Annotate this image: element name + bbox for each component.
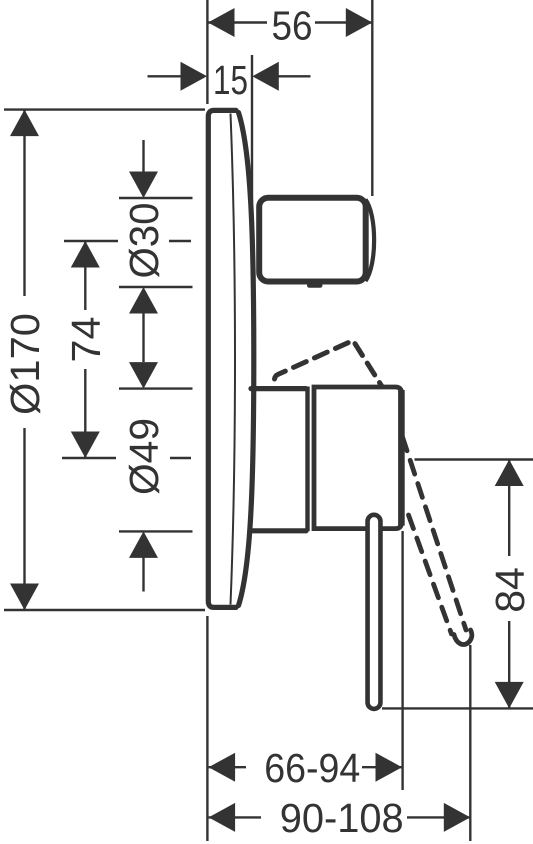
dimension 56 line	[208, 21, 372, 23]
handle hub right face thick edge	[398, 390, 405, 526]
trim plate back curve	[239, 113, 254, 606]
svg-text:56: 56	[272, 3, 313, 49]
dashed lever lowest position left edge	[409, 515, 452, 634]
dimension 90-108 line	[209, 816, 470, 818]
dimension 74 top tick	[64, 240, 191, 242]
svg-text:66-94: 66-94	[264, 745, 360, 791]
escutcheon sleeve bottom edge	[251, 528, 306, 533]
dimension 74 top arrow	[71, 241, 100, 268]
dimension 84 line	[508, 460, 510, 708]
dimension 66-94 line	[209, 766, 402, 768]
escutcheon sleeve right edge	[305, 387, 309, 532]
dimension diameter49 bottom arrow with tail	[129, 531, 158, 591]
shut-off knob bottom notch	[310, 283, 321, 288]
extension line 66-94 right (handle hub face)	[401, 531, 403, 790]
dimension diameter49 bottom tick	[119, 530, 193, 532]
extension line right (56mm, block face)	[371, 0, 373, 196]
escutcheon sleeve top edge	[251, 386, 306, 391]
extension line diameter170 top	[4, 108, 205, 110]
dimension 84 bottom arrow	[495, 682, 524, 709]
dashed lever lowest position right edge	[403, 437, 467, 630]
dashed lever in raised position	[275, 341, 383, 387]
shut-off knob body	[259, 198, 366, 282]
dimension 90-108 right arrow	[444, 803, 471, 832]
dimension 15 line left tail	[148, 75, 183, 77]
dimension 15 left arrow	[181, 62, 208, 91]
svg-text:74: 74	[63, 317, 109, 363]
svg-text:15: 15	[213, 57, 248, 103]
extension line plate back (15mm)	[251, 55, 253, 202]
dimension 84 top arrow	[495, 460, 524, 487]
dimension 66-94 right arrow	[376, 753, 403, 782]
shut-off knob end bulge	[366, 200, 375, 282]
dimension 74 bottom tick	[62, 457, 191, 459]
dimension 15 right tail	[278, 75, 311, 77]
dimension diameter30 bottom arrow with tail joining diameter49 top arrow	[129, 287, 158, 389]
svg-text:Ø170: Ø170	[2, 313, 48, 415]
dimension 66-94 left arrow	[209, 753, 236, 782]
svg-text:90-108: 90-108	[280, 795, 404, 841]
dimension 74 bottom arrow	[71, 432, 100, 459]
extension line bottom-left (plate front face)	[206, 616, 208, 841]
trim plate inner rim line	[231, 114, 236, 605]
dimension 15 right arrow	[252, 62, 278, 91]
extension line top-left (plate front face, from image top)	[206, 0, 208, 104]
dimension diameter30 bottom tick	[119, 286, 193, 288]
extension line diameter170 bottom	[4, 609, 205, 611]
dimension diameter30 top arrow with tail	[129, 140, 158, 198]
extension line 90-108 right (lever tip lowest)	[469, 645, 471, 841]
svg-text:Ø30: Ø30	[121, 203, 167, 279]
dimension 74 line	[84, 241, 86, 458]
trim plate outline	[208, 110, 236, 607]
dimension diameter170 bottom arrow	[10, 584, 39, 611]
dimension diameter170 top arrow	[10, 110, 39, 137]
dimension 56 right arrow	[346, 8, 373, 37]
dimension 56 left arrow	[208, 8, 235, 37]
extension line 84 bottom (from lever tip)	[382, 707, 533, 709]
handle hub outline	[314, 387, 402, 529]
svg-text:84: 84	[487, 567, 533, 613]
dimension diameter30 top tick	[119, 197, 193, 199]
extension line 84 top (from dashed lever elbow)	[415, 458, 533, 460]
dimension diameter49 top tick	[119, 387, 193, 389]
handle lever (down position)	[368, 515, 381, 709]
dimension 90-108 left arrow	[209, 803, 236, 832]
svg-text:Ø49: Ø49	[121, 418, 167, 495]
dimension diameter170 line	[23, 110, 25, 610]
dashed lever tip hook	[454, 630, 472, 645]
